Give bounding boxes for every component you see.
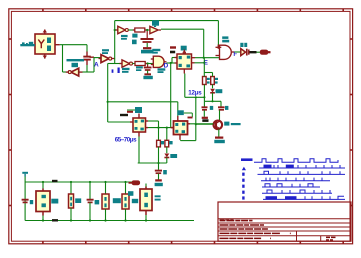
border zone ticks right — [350, 38, 352, 40]
D flip-flop U3A — [177, 54, 192, 69]
teal label above U2D — [222, 36, 228, 39]
wire W1 to U4B top — [108, 101, 178, 103]
inverter U1C — [101, 55, 109, 63]
timing row E waveform — [262, 184, 320, 187]
U3A pin dots — [179, 56, 182, 59]
timing row G waveform with solid blocks — [266, 196, 278, 199]
title block outer rect — [218, 202, 351, 241]
U3A top pin with bubble — [183, 50, 185, 55]
teal label right of C7 — [225, 106, 228, 110]
wire R8 to D2 — [166, 147, 168, 153]
inverter U1B (facing left) — [71, 68, 79, 76]
U5 top pin — [44, 30, 46, 35]
U3A teal label above — [181, 46, 187, 51]
teal label under U1F — [122, 68, 130, 70]
wire U3A out to U2D — [195, 57, 220, 59]
teal label 4.9152MHz — [67, 59, 85, 61]
teal label block above U1E — [152, 20, 159, 25]
wire node to Q1 base — [195, 97, 197, 140]
wire supply top rail — [25, 181, 140, 183]
U4B pin dots — [175, 123, 178, 126]
timing left marker triangle — [242, 167, 246, 171]
crystal Y1 (vertical) — [86, 52, 88, 57]
timing row F waveform — [262, 190, 332, 193]
wire D1 to node — [212, 93, 214, 102]
buffer U1E — [150, 26, 158, 33]
junction L2 — [203, 57, 205, 59]
wire loop bottom right — [79, 71, 95, 73]
teal label under U2A — [158, 68, 166, 70]
title block horizontal dividers — [218, 218, 351, 220]
wire U2A out to U3A — [167, 62, 178, 64]
resistor R9 (vertical, yellow) — [70, 182, 72, 194]
teal label right of Q1 — [224, 122, 229, 126]
teal label right of U6 — [51, 199, 58, 204]
wire U2D out — [235, 51, 241, 53]
resistor R3 (horizontal) — [135, 28, 145, 32]
U3A lower right pin wire — [192, 62, 195, 64]
teal label right of R6 — [215, 78, 218, 80]
wire U4B right to base node — [190, 123, 213, 125]
junction dots supply — [42, 181, 44, 183]
ground under C6 (dark) — [202, 117, 208, 119]
U5 pin names (teal) — [47, 38, 51, 44]
U5 label text (teal) left — [20, 44, 35, 46]
crystal oscillator module U5 — [35, 34, 55, 54]
wire osc node top — [60, 44, 87, 46]
wire Y1 bottom down — [86, 65, 88, 72]
wire W1 down — [177, 102, 179, 116]
U4A right pins — [146, 120, 149, 122]
wire to U3A upper pin — [172, 57, 177, 59]
wire U3A bottom down — [184, 74, 186, 98]
wire into U4A left pin — [108, 121, 130, 123]
wire node row y101 — [204, 100, 221, 102]
wires U4A right to R7/R8 — [148, 120, 159, 122]
teal label right of C9 — [30, 200, 33, 204]
wire R5 bottom to node — [203, 85, 205, 98]
U4A top pin — [138, 114, 140, 119]
crystal glyph inside U5 — [38, 40, 44, 49]
maroon mark left of label — [127, 111, 133, 113]
capacitor C5 — [147, 65, 149, 67]
wire D2 down — [166, 158, 168, 164]
wire from U2A-out node down to U4B — [170, 63, 172, 128]
NAND gate U2A — [153, 56, 164, 67]
wire loop bottom left — [63, 71, 70, 73]
U2D top input pin — [217, 45, 219, 49]
teal label right of C6 — [210, 106, 213, 110]
wire node B2 down to U4A — [107, 64, 109, 123]
border zone ticks left — [9, 38, 12, 40]
ground under Q1 — [215, 137, 223, 139]
teal label right of C8 — [163, 170, 167, 174]
timing row B waveform with solid blocks — [264, 165, 272, 168]
junction node at C4 — [146, 29, 148, 31]
wire to output port — [257, 51, 261, 53]
title block text row 2 — [220, 224, 265, 226]
wire U1F to R4 — [133, 63, 136, 65]
wire L2 down to U2D input — [203, 29, 205, 58]
teal label right of R9 — [75, 198, 81, 203]
wire node to R5/R6 — [203, 58, 205, 73]
capacitor C6 — [203, 101, 205, 106]
title block sheet text — [326, 236, 336, 238]
relay/IC box U7 — [145, 184, 147, 190]
title block text row 3 — [220, 228, 275, 230]
U4B right pin — [188, 123, 191, 125]
wire jog to U3A upper pin — [171, 58, 173, 64]
wire row2 from node B — [108, 63, 122, 65]
blue tick net label — [118, 68, 120, 74]
U4B top pin — [177, 116, 179, 121]
resistor R10 (vertical, yellow) — [105, 182, 107, 194]
wire from label right — [184, 112, 193, 114]
capacitor C4 — [146, 31, 148, 38]
black label bar near U3A — [170, 51, 175, 54]
wire osc right branch — [93, 57, 95, 72]
resistor R5 (vertical) — [203, 77, 207, 85]
teal label right of R5 — [207, 78, 210, 80]
title block vertical dividers — [296, 231, 298, 241]
wire U4A bottom to row; node — [138, 137, 140, 164]
teal label above U1C — [102, 49, 109, 51]
Q1 emitter wire — [218, 129, 220, 137]
timing row A waveform — [254, 159, 338, 162]
wire node row y97 — [185, 96, 205, 98]
U3A right pin — [192, 57, 196, 59]
wire L1 down to U2D — [217, 21, 219, 45]
teal label above U4B — [177, 110, 183, 115]
input port connector on rail — [132, 180, 141, 185]
teal label right of D1 — [216, 89, 223, 93]
U3A bottom pin — [183, 69, 185, 74]
monostable U4A box — [133, 118, 146, 132]
wire C7 to Q1 collector — [219, 110, 221, 120]
wire osc to U1C — [94, 57, 101, 59]
teal label right of R8 — [169, 141, 172, 144]
teal label right of R7 — [161, 141, 164, 144]
transistor Q1 — [214, 121, 223, 130]
resistor R6 (vertical) — [211, 77, 215, 85]
capacitor C7 — [220, 101, 222, 106]
U3A left pins — [175, 57, 178, 59]
resistor R8 (vertical) — [165, 140, 169, 147]
ground under C5 — [144, 73, 151, 75]
teal label right of R10 — [113, 198, 121, 203]
timing row D waveform — [261, 178, 330, 181]
wire R4 to U2A — [148, 63, 154, 65]
timing row A label solid — [241, 158, 253, 161]
wire U4B bottom loop — [180, 139, 182, 142]
timing left marker squares — [242, 173, 244, 176]
teal label right of C10 — [95, 200, 100, 204]
resistor R11 (vertical, yellow) — [125, 182, 127, 194]
wire supply bottom rail — [25, 220, 194, 222]
teal label left of U7 — [128, 191, 133, 196]
blue tick near node B — [112, 69, 114, 72]
svg-text:A: A — [94, 62, 99, 69]
U5 right pin — [55, 44, 60, 46]
wire osc loop left — [62, 45, 64, 72]
border zone ticks top — [42, 9, 44, 12]
VCC power symbol — [22, 172, 28, 174]
wire U1D to R3 — [128, 29, 135, 31]
resistor R4 (horizontal) — [135, 62, 145, 66]
wire bottom row y163 — [138, 162, 167, 164]
wire R3 to U1E — [147, 29, 150, 31]
svg-text:12μs: 12μs — [188, 89, 202, 96]
teal label C4 left — [132, 34, 137, 38]
wire B to U1D — [115, 29, 119, 31]
title block text row 5 — [220, 237, 276, 239]
teal label above output driver — [240, 43, 243, 47]
title block text row 4 — [220, 232, 297, 234]
wire node B vertical — [114, 21, 116, 64]
teal label right of U7 — [155, 195, 161, 197]
monostable U4B box — [174, 121, 188, 135]
wire stub to label — [127, 109, 135, 111]
svg-text:65–70μs: 65–70μs — [115, 136, 137, 143]
U4A left pin — [130, 121, 133, 123]
ground under C8 — [155, 179, 162, 181]
wire L2 U1E out — [161, 28, 204, 30]
capacitor C10 — [89, 182, 91, 200]
teal label right of D2 — [170, 154, 177, 158]
junction at C5 — [147, 62, 149, 64]
capacitor C8 — [158, 163, 160, 170]
border zone ticks bottom — [42, 241, 44, 244]
U4B bottom pin — [179, 135, 181, 140]
maroon label bar near U3A — [170, 46, 176, 48]
ground under C4 — [143, 47, 151, 49]
U4A pin dots — [135, 120, 138, 123]
maroon jog — [188, 117, 193, 119]
timing row C waveform — [258, 171, 346, 174]
teal label under U1D — [121, 35, 128, 37]
capacitor C9 (left) — [22, 199, 29, 201]
teal label box above U4A — [135, 107, 142, 113]
diode D1 — [210, 89, 215, 93]
teal label right of R11 — [132, 199, 138, 203]
regulator/IC box U6 — [42, 182, 44, 189]
U4A bottom pin — [138, 132, 140, 137]
black mark on top rail — [52, 180, 58, 182]
inverter U1D — [118, 26, 126, 33]
wire supply left vertical — [24, 177, 26, 221]
wire long top L1 — [115, 20, 219, 22]
title block text row 1 — [220, 220, 253, 222]
U5 bottom pin — [44, 54, 46, 59]
diode D2 — [164, 154, 169, 158]
black mark on bottom rail — [52, 219, 58, 221]
output driver symbol — [241, 49, 246, 56]
black mark left of U4A — [120, 114, 128, 116]
teal label under R4 — [136, 66, 143, 68]
wire jog to R6 — [204, 72, 212, 74]
teal label above U2A — [152, 49, 160, 51]
NAND gate U2D — [220, 45, 232, 59]
inverter U1F — [122, 60, 130, 67]
wire R7 down — [158, 147, 160, 163]
U4B left pin — [171, 127, 174, 129]
output port connector — [260, 50, 269, 55]
black wire segment — [250, 51, 257, 53]
resistor R7 (vertical) — [157, 140, 161, 147]
wire osc loop right — [86, 45, 88, 52]
